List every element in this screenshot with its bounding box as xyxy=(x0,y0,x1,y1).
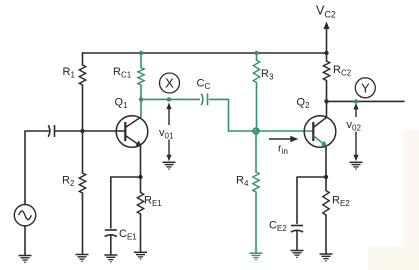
node X circle xyxy=(160,73,180,93)
wire RC2 top lead xyxy=(326,53,328,61)
wire input line right segment xyxy=(55,130,125,132)
junction dot R3 R4 node green ring xyxy=(253,128,259,134)
node Y circle xyxy=(355,78,375,98)
wire emitter junction to CE2 xyxy=(297,177,326,223)
wire output line Y xyxy=(327,100,405,102)
junction dot RC1 rail green xyxy=(139,51,143,55)
resistor RC1 xyxy=(138,68,144,86)
transistor Q2 xyxy=(304,116,336,148)
junction dot R3 rail green xyxy=(254,51,258,55)
svg-text:Q1: Q1 xyxy=(115,97,129,111)
VC2 supply arrow xyxy=(324,22,330,54)
svg-text:R3: R3 xyxy=(261,68,274,82)
wire Q2 emitter xyxy=(325,146,327,177)
wire R2 bottom lead xyxy=(82,193,84,254)
svg-text:X: X xyxy=(165,76,174,91)
wire R1 branch bottom xyxy=(82,85,84,131)
wire R1 branch top xyxy=(82,53,84,65)
svg-text:RE2: RE2 xyxy=(332,195,350,209)
wire AC source branch xyxy=(24,131,26,205)
wire Q2 collector xyxy=(326,101,328,117)
wire node X line green xyxy=(141,98,200,100)
transistor Q1 xyxy=(116,116,148,148)
wire top supply rail xyxy=(83,52,327,54)
resistor R2 xyxy=(79,173,85,193)
svg-text:R4: R4 xyxy=(236,175,249,189)
svg-text:Y: Y xyxy=(361,80,370,95)
capacitor input coupling xyxy=(48,125,54,137)
junction dot RC1 node X green xyxy=(139,97,143,101)
wire corner to Q2 base green xyxy=(229,130,313,132)
wire CE1 to ground xyxy=(110,235,112,254)
rin arrow xyxy=(269,136,298,142)
wire CC to corner green xyxy=(210,99,229,131)
ground CE1 xyxy=(104,255,117,262)
wire R4 bottom lead green xyxy=(255,192,257,253)
junction dot input divider xyxy=(80,129,84,133)
wire CE2 to ground xyxy=(296,231,298,250)
wire R3 top lead green xyxy=(256,53,258,60)
AC source xyxy=(14,205,35,226)
svg-text:RE1: RE1 xyxy=(144,195,162,209)
wire RC1 top lead green xyxy=(140,53,142,68)
voltage arrow v01 xyxy=(166,103,171,162)
wire Q1 emitter xyxy=(140,147,142,178)
resistor R1 xyxy=(79,65,85,85)
svg-text:v01: v01 xyxy=(159,127,174,141)
wire RE2 bottom lead xyxy=(325,215,327,254)
svg-text:v02: v02 xyxy=(347,119,362,133)
ground v02 xyxy=(350,162,363,169)
resistor R4 xyxy=(253,172,259,192)
ground CE2 xyxy=(291,251,304,258)
wire R4 top lead green xyxy=(255,131,257,172)
ground R4 green xyxy=(250,253,263,260)
ground RE1 xyxy=(134,252,147,259)
wire R2 top lead xyxy=(82,131,84,173)
svg-text:VC2: VC2 xyxy=(316,4,336,20)
svg-text:rin: rin xyxy=(278,143,288,157)
resistor R3 xyxy=(253,60,259,83)
svg-text:R2: R2 xyxy=(62,175,75,189)
junction dot VC2 rail xyxy=(324,51,328,55)
capacitor CC xyxy=(201,93,207,105)
wire AC source to ground xyxy=(24,226,26,255)
svg-text:CC: CC xyxy=(197,78,211,92)
capacitor CE1 xyxy=(105,230,117,237)
junction dot node X green xyxy=(167,97,171,101)
svg-text:CE2: CE2 xyxy=(269,220,287,234)
junction dot Q2 collector output xyxy=(324,99,328,103)
wire emitter junction to CE1 xyxy=(111,177,141,228)
ground v01 xyxy=(163,162,176,169)
junction dot v02 node green xyxy=(354,99,358,103)
wire input line left segment xyxy=(25,130,49,132)
ground R2 xyxy=(76,255,89,262)
wire R3 bottom lead green xyxy=(256,83,258,132)
page tint right edge xyxy=(403,130,419,270)
wire RC1 bottom lead green xyxy=(140,85,142,117)
resistor RC2 xyxy=(323,61,329,80)
junction dot Q2 emitter xyxy=(324,175,328,179)
ground RE2 xyxy=(320,254,333,261)
capacitor CE2 xyxy=(291,226,303,233)
junction dot Q1 emitter xyxy=(138,175,142,179)
svg-text:R1: R1 xyxy=(63,66,76,80)
svg-text:RC1: RC1 xyxy=(113,66,132,80)
wire RC2 bottom lead xyxy=(326,81,328,102)
wire RE1 bottom lead xyxy=(140,214,142,252)
resistor RE1 xyxy=(137,193,143,214)
svg-text:CE1: CE1 xyxy=(119,228,137,242)
resistor RE2 xyxy=(323,191,329,215)
svg-text:Q2: Q2 xyxy=(297,97,311,111)
wire RE1 top lead xyxy=(140,177,142,193)
ground AC source xyxy=(19,256,32,263)
wire RE2 top lead xyxy=(325,177,327,191)
voltage arrow v02 xyxy=(353,103,358,161)
svg-text:RC2: RC2 xyxy=(333,64,352,78)
